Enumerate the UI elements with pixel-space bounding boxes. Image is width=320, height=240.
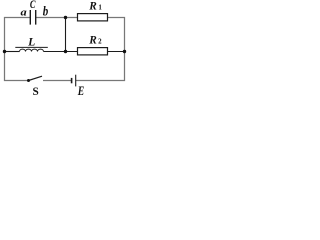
svg-text:R: R bbox=[88, 34, 97, 46]
svg-text:a: a bbox=[21, 7, 28, 19]
svg-text:1: 1 bbox=[98, 4, 102, 12]
svg-text:L: L bbox=[27, 35, 35, 48]
svg-text:b: b bbox=[43, 4, 49, 19]
svg-text:C: C bbox=[30, 0, 36, 11]
svg-text:2: 2 bbox=[98, 38, 102, 46]
svg-text:S: S bbox=[33, 86, 39, 97]
svg-text:E: E bbox=[77, 84, 84, 97]
svg-text:R: R bbox=[88, 0, 97, 12]
